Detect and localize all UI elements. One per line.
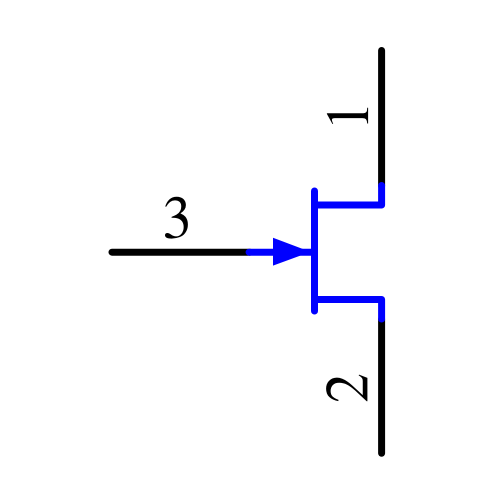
wire pin 3 (gate lead)	[112, 249, 250, 256]
transistor Q1 gate arrow head	[273, 238, 311, 266]
pin number 1	[327, 108, 368, 124]
wire pin 1 (drain lead)	[378, 51, 385, 187]
pin number 3	[165, 197, 188, 239]
transistor Q1 channel bar	[311, 191, 318, 311]
wire pin 2 (source lead)	[378, 319, 385, 453]
transistor Q1 gate wire	[249, 249, 314, 256]
transistor Q1 drain connection wire	[315, 186, 382, 206]
pin number 2	[326, 375, 367, 402]
transistor Q1 source connection wire	[315, 300, 382, 320]
